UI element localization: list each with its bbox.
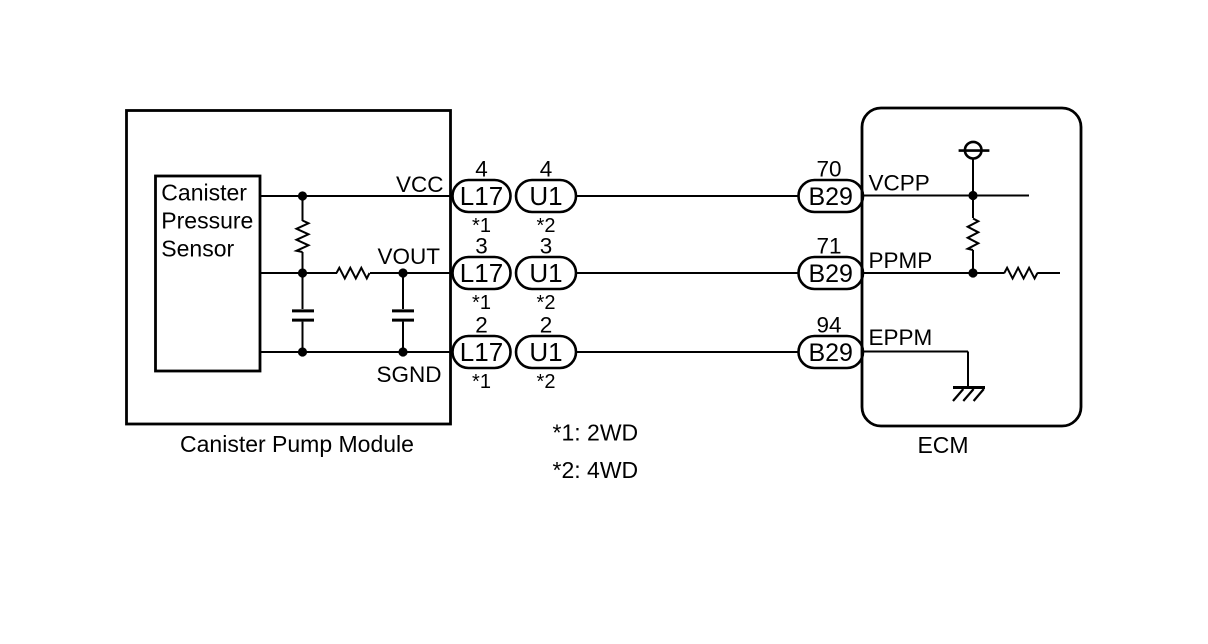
wire C2 top lead <box>402 273 404 309</box>
svg-text:4: 4 <box>540 157 553 182</box>
wire VCPP inside ECM <box>862 195 1029 197</box>
wire PPMP after R4 <box>1037 272 1060 274</box>
connector L17 pin 4 <box>453 180 511 212</box>
connector L17 pin 3 <box>453 257 511 289</box>
wire VCC sensor to connector <box>260 195 454 197</box>
svg-text:VCC: VCC <box>396 172 444 197</box>
svg-text:94: 94 <box>816 313 841 338</box>
wire C1 bottom lead <box>302 322 304 352</box>
svg-text:71: 71 <box>816 234 841 259</box>
svg-text:SGND: SGND <box>376 362 441 387</box>
wire VCC U1 to B29 <box>576 195 800 197</box>
connector L17 pin 2 <box>453 336 511 368</box>
svg-text:ECM: ECM <box>917 432 968 458</box>
svg-text:B29: B29 <box>808 339 852 367</box>
wire PPMP inside ECM <box>862 272 1005 274</box>
connector B29 pin 94 <box>799 336 864 368</box>
wire VOUT U1 to B29 <box>576 272 800 274</box>
node junction VCC/R1 <box>298 191 307 200</box>
svg-text:B29: B29 <box>808 260 852 288</box>
svg-text:70: 70 <box>816 157 841 182</box>
svg-text:2: 2 <box>475 313 488 338</box>
svg-text:L17: L17 <box>460 258 503 288</box>
node junction VOUT/R1 <box>298 268 307 277</box>
svg-text:VCPP: VCPP <box>869 171 930 196</box>
wire SGND sensor to connector <box>260 351 454 353</box>
svg-text:L17: L17 <box>460 181 503 211</box>
resistor R2 (series in VOUT) <box>337 268 370 279</box>
svg-text:Pressure: Pressure <box>161 208 253 234</box>
connector U1 pin 2 <box>516 336 576 368</box>
svg-text:L17: L17 <box>460 337 503 367</box>
wire VOUT sensor to R2 <box>260 272 337 274</box>
power symbol B+ (circle with crossbar) <box>959 142 990 159</box>
node junction PPMP/R3 <box>968 268 977 277</box>
connector B29 pin 70 <box>799 180 864 212</box>
svg-text:3: 3 <box>475 234 488 259</box>
wire R1 top lead <box>302 196 304 221</box>
wire C2 bottom lead <box>402 322 404 352</box>
svg-text:*2: *2 <box>537 371 556 393</box>
svg-text:U1: U1 <box>529 337 562 367</box>
wire EPPM inside ECM <box>862 351 968 353</box>
wire SGND U1 to B29 <box>576 351 800 353</box>
resistor R1 (vertical, VCC to VOUT) <box>297 221 309 253</box>
capacitor C1 (VOUT to SGND) <box>292 311 314 320</box>
connector U1 pin 3 <box>516 257 576 289</box>
node junction SGND/C2 <box>398 347 407 356</box>
module box Canister Pump Module <box>127 111 451 425</box>
node junction VOUT/C2 <box>398 268 407 277</box>
svg-text:2: 2 <box>540 313 553 338</box>
capacitor C2 (VOUT to SGND) <box>392 311 414 320</box>
node junction VCPP/R3 <box>968 191 977 200</box>
resistor R3 (pull-up VCPP to PPMP) <box>968 219 979 251</box>
svg-text:Canister: Canister <box>161 180 247 206</box>
svg-text:3: 3 <box>540 234 553 259</box>
svg-text:PPMP: PPMP <box>869 248 933 273</box>
svg-text:VOUT: VOUT <box>377 244 440 269</box>
connector B29 pin 71 <box>799 257 864 289</box>
sensor U2 Canister Pressure Sensor <box>156 176 261 371</box>
wire VOUT R2 to connector <box>370 272 454 274</box>
node junction SGND/C1 <box>298 347 307 356</box>
wire C1 top lead <box>302 273 304 309</box>
svg-text:*1: *1 <box>472 292 491 314</box>
resistor R4 (series in PPMP) <box>1004 268 1037 279</box>
svg-text:*2: 4WD: *2: 4WD <box>553 457 639 483</box>
wire R3 bottom lead <box>972 250 974 273</box>
svg-text:EPPM: EPPM <box>869 325 933 350</box>
wire EPPM down to ground <box>967 352 969 387</box>
svg-text:*2: *2 <box>537 292 556 314</box>
ground symbol <box>953 388 985 402</box>
svg-text:U1: U1 <box>529 258 562 288</box>
label Canister Pressure Sensor <box>161 180 253 262</box>
svg-text:Canister Pump Module: Canister Pump Module <box>180 431 414 457</box>
svg-text:U1: U1 <box>529 181 562 211</box>
svg-text:Sensor: Sensor <box>161 236 234 262</box>
wire R3 top lead <box>972 196 974 219</box>
svg-text:*1: *1 <box>472 371 491 393</box>
ECM box U3 <box>862 108 1081 426</box>
svg-text:*1: 2WD: *1: 2WD <box>553 420 639 446</box>
wire power symbol to VCPP node <box>972 159 974 196</box>
connector U1 pin 4 <box>516 180 576 212</box>
svg-text:4: 4 <box>475 157 488 182</box>
wire R1 bottom lead <box>302 252 304 273</box>
svg-text:B29: B29 <box>808 183 852 211</box>
